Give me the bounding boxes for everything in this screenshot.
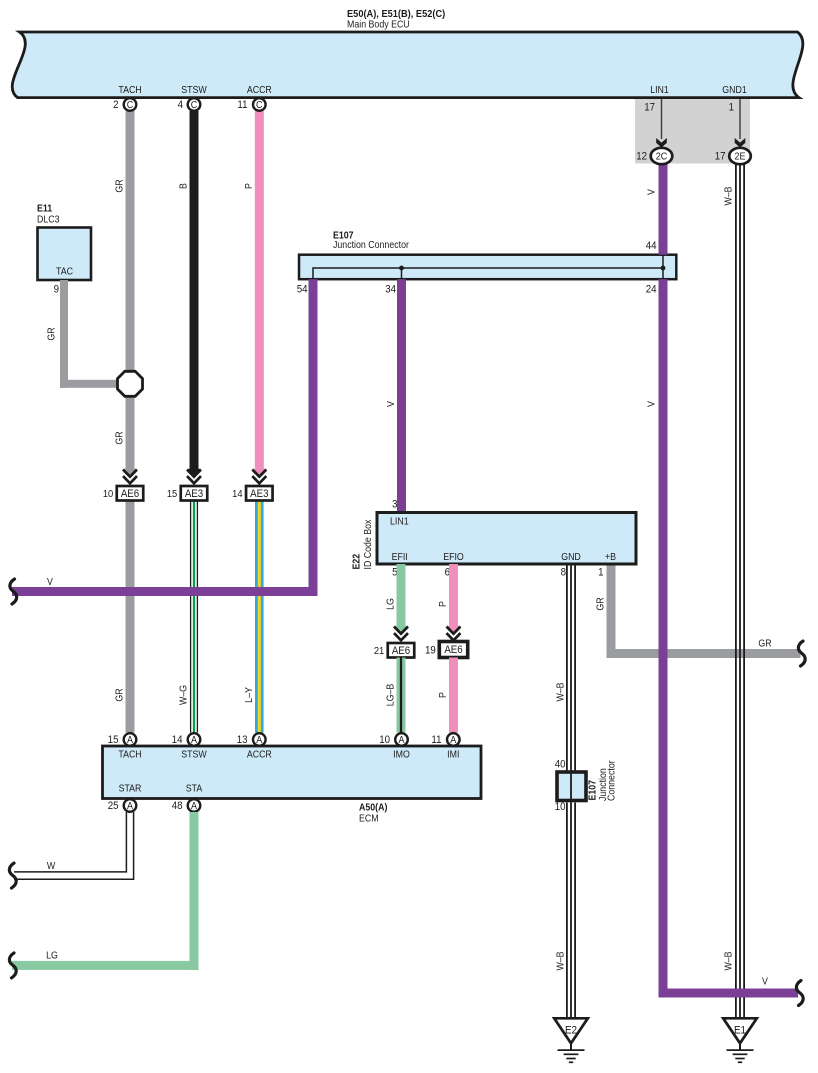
- svg-text:A: A: [191, 735, 198, 747]
- svg-text:4: 4: [178, 100, 184, 112]
- svg-text:40: 40: [555, 759, 566, 771]
- svg-text:ID Code Box: ID Code Box: [363, 519, 374, 569]
- svg-text:+B: +B: [605, 552, 616, 563]
- svg-text:ACCR: ACCR: [247, 749, 272, 760]
- svg-text:A: A: [256, 735, 263, 747]
- svg-text:LIN1: LIN1: [390, 516, 409, 527]
- svg-text:48: 48: [172, 801, 183, 813]
- svg-text:P: P: [243, 183, 254, 189]
- svg-text:EFIO: EFIO: [443, 552, 464, 563]
- svg-text:C: C: [127, 100, 134, 112]
- svg-text:EFII: EFII: [392, 552, 408, 563]
- svg-text:W–B: W–B: [723, 951, 734, 970]
- svg-text:A: A: [398, 735, 405, 747]
- svg-text:44: 44: [646, 241, 657, 253]
- svg-text:17: 17: [715, 151, 726, 163]
- svg-text:2E: 2E: [735, 151, 746, 163]
- svg-text:1: 1: [729, 102, 735, 114]
- svg-text:17: 17: [644, 102, 655, 114]
- svg-text:Main Body ECU: Main Body ECU: [347, 19, 410, 30]
- svg-text:A: A: [127, 735, 134, 747]
- svg-text:10: 10: [379, 735, 390, 747]
- svg-text:W–B: W–B: [555, 951, 566, 970]
- svg-text:STSW: STSW: [181, 749, 207, 760]
- svg-text:Connector: Connector: [606, 760, 617, 801]
- svg-text:14: 14: [172, 735, 183, 747]
- svg-text:10: 10: [555, 802, 566, 814]
- svg-text:13: 13: [237, 735, 248, 747]
- svg-text:24: 24: [646, 284, 657, 296]
- svg-text:STAR: STAR: [119, 783, 142, 794]
- svg-text:C: C: [256, 100, 263, 112]
- svg-text:2C: 2C: [656, 151, 668, 163]
- svg-text:W–B: W–B: [723, 186, 734, 205]
- svg-text:15: 15: [167, 489, 178, 501]
- svg-text:GR: GR: [114, 431, 125, 444]
- svg-text:AE6: AE6: [121, 489, 140, 501]
- svg-text:ACCR: ACCR: [247, 85, 272, 96]
- svg-text:GR: GR: [114, 179, 125, 192]
- svg-text:9: 9: [54, 284, 60, 296]
- svg-text:8: 8: [561, 567, 567, 579]
- svg-text:A: A: [127, 801, 134, 813]
- svg-text:GR: GR: [595, 597, 606, 610]
- svg-text:AE3: AE3: [185, 489, 204, 501]
- svg-text:V: V: [47, 577, 54, 588]
- svg-text:TAC: TAC: [56, 266, 73, 277]
- svg-text:P: P: [438, 692, 449, 698]
- svg-text:GR: GR: [46, 327, 57, 340]
- svg-text:V: V: [762, 976, 769, 987]
- svg-text:1: 1: [598, 567, 604, 579]
- svg-text:E11: E11: [37, 203, 52, 214]
- svg-text:B: B: [178, 183, 189, 189]
- svg-text:AE6: AE6: [444, 645, 463, 657]
- svg-text:L–Y: L–Y: [243, 687, 254, 703]
- svg-text:25: 25: [108, 801, 119, 813]
- svg-text:P: P: [438, 601, 449, 607]
- svg-text:W: W: [47, 861, 56, 872]
- svg-text:E22: E22: [351, 554, 362, 570]
- svg-text:AE3: AE3: [250, 489, 269, 501]
- svg-text:A: A: [191, 801, 198, 813]
- svg-text:LIN1: LIN1: [650, 85, 669, 96]
- svg-text:LG–B: LG–B: [385, 684, 396, 707]
- svg-text:C: C: [191, 100, 198, 112]
- svg-text:34: 34: [385, 284, 396, 296]
- svg-text:10: 10: [103, 489, 114, 501]
- svg-text:LG: LG: [46, 950, 58, 961]
- svg-text:STSW: STSW: [181, 85, 207, 96]
- svg-text:V: V: [646, 188, 657, 195]
- svg-text:A: A: [450, 735, 457, 747]
- svg-text:Junction Connector: Junction Connector: [333, 240, 409, 251]
- svg-text:V: V: [386, 400, 397, 407]
- svg-text:IMI: IMI: [447, 749, 459, 760]
- svg-text:14: 14: [232, 489, 243, 501]
- svg-text:ECM: ECM: [359, 813, 379, 824]
- svg-text:V: V: [646, 400, 657, 407]
- svg-text:E2: E2: [565, 1025, 577, 1037]
- svg-text:11: 11: [237, 100, 247, 112]
- svg-text:GR: GR: [758, 638, 771, 649]
- svg-text:2: 2: [113, 100, 119, 112]
- svg-text:GND1: GND1: [722, 85, 746, 96]
- svg-text:STA: STA: [186, 783, 203, 794]
- svg-text:W–G: W–G: [178, 685, 189, 705]
- svg-text:A50(A): A50(A): [359, 802, 387, 813]
- svg-text:19: 19: [425, 645, 436, 657]
- svg-text:TACH: TACH: [118, 749, 141, 760]
- svg-text:LG: LG: [385, 598, 396, 610]
- svg-text:3: 3: [392, 499, 398, 511]
- svg-text:E1: E1: [734, 1025, 746, 1037]
- svg-text:15: 15: [108, 735, 119, 747]
- svg-text:TACH: TACH: [118, 85, 141, 96]
- svg-text:12: 12: [636, 151, 647, 163]
- svg-text:E107: E107: [587, 780, 598, 801]
- svg-text:54: 54: [297, 284, 308, 296]
- svg-text:IMO: IMO: [393, 749, 410, 760]
- svg-text:21: 21: [374, 646, 385, 658]
- svg-text:W–B: W–B: [555, 682, 566, 701]
- svg-text:GR: GR: [114, 688, 125, 701]
- svg-text:DLC3: DLC3: [37, 214, 60, 225]
- svg-text:AE6: AE6: [392, 646, 411, 658]
- svg-text:11: 11: [431, 735, 441, 747]
- svg-text:GND: GND: [561, 552, 581, 563]
